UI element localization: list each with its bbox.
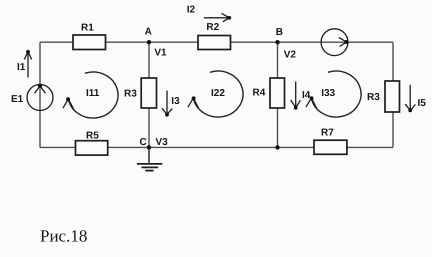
svg-text:I2: I2 xyxy=(187,5,196,16)
svg-text:V2: V2 xyxy=(284,50,297,61)
wire right vertical xyxy=(392,42,394,147)
ground xyxy=(148,148,150,163)
resistor R1 xyxy=(73,35,106,50)
svg-text:I1: I1 xyxy=(17,62,26,73)
svg-text:I5: I5 xyxy=(418,98,427,109)
current source top right xyxy=(321,29,348,56)
mesh current I22 xyxy=(193,71,243,117)
node B xyxy=(275,40,279,44)
wire vertical node B down xyxy=(277,42,279,147)
mesh current I33 xyxy=(311,71,361,117)
svg-text:I4: I4 xyxy=(302,90,311,101)
current arrow I2 xyxy=(204,13,229,21)
svg-text:A: A xyxy=(145,27,152,38)
resistor R3 right xyxy=(385,81,400,112)
wire top horizontal xyxy=(40,41,393,43)
current arrow I3 xyxy=(162,91,172,115)
svg-text:R2: R2 xyxy=(206,22,219,33)
svg-text:R3: R3 xyxy=(367,92,380,103)
current arrow I4 xyxy=(291,82,301,108)
resistor R4 xyxy=(270,78,285,108)
svg-text:E1: E1 xyxy=(11,94,24,105)
voltage source E1 xyxy=(27,85,53,111)
svg-text:V3: V3 xyxy=(156,137,169,148)
resistor R7 xyxy=(314,140,347,154)
svg-text:R4: R4 xyxy=(253,88,266,99)
svg-text:Рис.18: Рис.18 xyxy=(40,227,87,246)
svg-text:R3: R3 xyxy=(124,88,137,99)
wire left vertical xyxy=(39,42,41,147)
svg-text:I22: I22 xyxy=(211,88,225,99)
node A xyxy=(147,40,151,44)
svg-text:V1: V1 xyxy=(154,48,167,59)
svg-text:R1: R1 xyxy=(81,22,94,33)
svg-text:B: B xyxy=(276,27,283,38)
wire bottom horizontal xyxy=(40,146,393,148)
resistor R2 xyxy=(198,36,231,50)
mesh current I11 xyxy=(68,72,118,118)
svg-text:I11: I11 xyxy=(86,88,100,99)
node C xyxy=(147,145,151,149)
junction node bottom B xyxy=(275,145,279,149)
svg-text:R7: R7 xyxy=(321,127,334,138)
resistor R5 xyxy=(76,141,108,155)
current arrow I1 xyxy=(24,52,31,78)
svg-text:R5: R5 xyxy=(86,131,99,142)
svg-text:I33: I33 xyxy=(321,88,335,99)
wire middle vertical node A to C xyxy=(148,42,150,147)
current arrow I5 xyxy=(405,85,415,111)
svg-text:I3: I3 xyxy=(171,96,180,107)
resistor R3 middle xyxy=(141,78,156,108)
svg-text:C: C xyxy=(140,137,147,148)
